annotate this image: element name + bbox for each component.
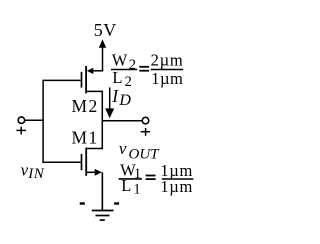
svg-text:M2: M2 (72, 96, 99, 116)
svg-text:1µm: 1µm (151, 69, 183, 88)
svg-text:M1: M1 (72, 127, 99, 147)
terminal input circle (18, 117, 25, 124)
wire M2 gate lead (43, 79, 81, 81)
transistor M2 gate bar (81, 72, 83, 88)
svg-text:I: I (111, 86, 119, 106)
svg-text:2: 2 (125, 74, 132, 90)
wire M2 drain down to M1 drain (86, 91, 102, 148)
label minus left (80, 202, 85, 204)
transistor M2 channel bar (85, 66, 87, 93)
terminal output circle (142, 117, 149, 124)
wire M1 source to ground (101, 172, 103, 210)
svg-text:IN: IN (27, 166, 44, 182)
wire M1 gate lead (43, 161, 81, 163)
svg-text:1µm: 1µm (160, 177, 193, 196)
current ID arrow (105, 87, 114, 118)
power 5V arrow (99, 39, 106, 70)
wire M2 source to VDD (93, 70, 104, 72)
label minus right (114, 202, 119, 204)
wire input terminal to gates (25, 119, 43, 121)
transistor M1 source arrow (NMOS) (86, 171, 95, 173)
transistor M1 channel bar (85, 148, 87, 176)
transistor M1 gate bar (81, 154, 83, 170)
svg-text:2µm: 2µm (151, 51, 184, 70)
label output plus (141, 128, 150, 136)
transistor M2 source arrow (PMOS) (87, 68, 93, 74)
equation W1/L1 = 1um/1um (119, 161, 194, 198)
svg-text:v: v (119, 139, 127, 158)
svg-text:D: D (118, 92, 131, 109)
ground symbol (92, 211, 114, 221)
svg-text:5V: 5V (94, 20, 117, 40)
svg-text:L: L (112, 68, 122, 87)
svg-text:1: 1 (133, 182, 140, 198)
wire output node (102, 120, 142, 122)
svg-text:L: L (121, 176, 131, 195)
equation W2/L2 = 2um/1um (111, 51, 183, 90)
wire input gates vertical (42, 80, 44, 163)
label input plus (16, 127, 26, 135)
svg-text:2: 2 (129, 57, 136, 73)
